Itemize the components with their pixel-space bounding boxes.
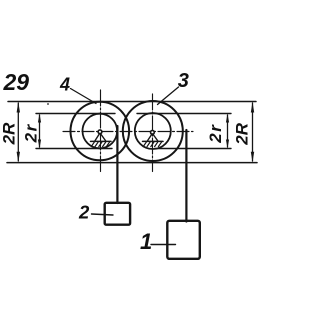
svg-text:2r: 2r [206,124,225,144]
svg-text:2R: 2R [233,122,252,145]
svg-text:2r: 2r [21,123,40,143]
svg-text:2: 2 [78,201,90,222]
svg-text:1: 1 [140,229,152,254]
svg-text:4: 4 [59,74,70,94]
svg-text:29: 29 [3,69,30,95]
svg-text:3: 3 [178,70,189,92]
svg-text:2R: 2R [0,122,18,145]
